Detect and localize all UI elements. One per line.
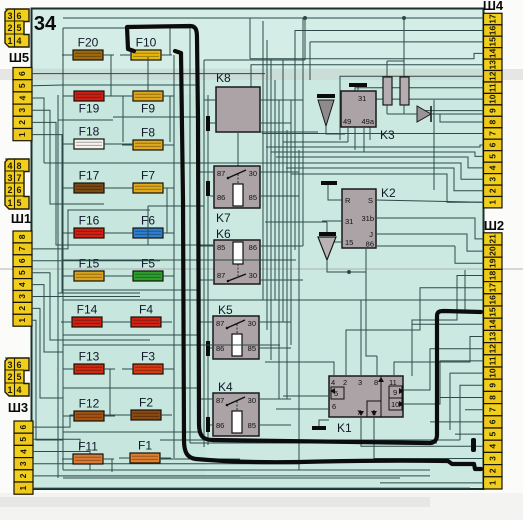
wire F16 to F6	[104, 232, 133, 234]
wire F5 right terminal	[163, 275, 174, 277]
fuse F15	[74, 257, 104, 282]
wire F20 right terminal	[103, 54, 114, 56]
wire K1 pin 5 in	[283, 395, 329, 397]
wire centre bus	[302, 18, 304, 246]
ground	[312, 426, 326, 430]
svg-text:Ш1: Ш1	[11, 211, 31, 226]
wire Ш5 pin 4	[32, 98, 44, 163]
wire VD3 cathode bar	[430, 106, 432, 122]
svg-text:1: 1	[7, 385, 12, 395]
svg-text:10: 10	[488, 94, 498, 104]
svg-text:7: 7	[16, 173, 21, 183]
fuse F20	[73, 36, 103, 61]
svg-text:Ш5: Ш5	[9, 50, 29, 65]
wire from Ш3 pin 6	[33, 415, 112, 427]
ground	[321, 181, 337, 185]
wire F13 left terminal	[63, 368, 74, 370]
svg-text:9: 9	[488, 383, 498, 388]
svg-text:10: 10	[391, 400, 399, 409]
svg-text:4: 4	[331, 378, 335, 387]
wire K1 pin 8 up	[376, 356, 378, 376]
wire F14 right terminal	[102, 321, 113, 323]
wire K1 pin 9 to Ш2 pin 12	[403, 349, 484, 390]
wire K6 left 85	[199, 245, 214, 247]
wire centre bus	[298, 150, 300, 470]
svg-text:F2: F2	[139, 396, 153, 410]
wire	[294, 30, 296, 60]
wire K1 pin 7 to Ш2 pin 4	[361, 417, 484, 446]
svg-text:3: 3	[488, 177, 498, 182]
wire F10 column drop	[147, 57, 149, 91]
wire F10 left terminal	[120, 54, 131, 56]
ground	[206, 417, 210, 432]
wire to Ш4 pin 7	[262, 133, 484, 135]
fuse F5	[133, 257, 163, 282]
wire K2 S to Ш4 pin 1	[376, 200, 484, 202]
svg-text:1: 1	[18, 485, 28, 490]
fuse F10	[131, 36, 161, 61]
wire R1 bottom	[386, 105, 388, 114]
svg-text:6: 6	[16, 185, 21, 195]
wire VD2 in	[265, 221, 327, 223]
svg-text:F17: F17	[79, 169, 100, 183]
wire K5 right 85	[259, 347, 291, 349]
svg-text:8: 8	[488, 119, 498, 124]
svg-text:1: 1	[17, 132, 27, 137]
svg-text:30: 30	[249, 271, 257, 280]
svg-text:4: 4	[17, 95, 27, 100]
svg-text:85: 85	[249, 193, 257, 202]
wire F11 left terminal	[62, 458, 73, 460]
svg-text:86: 86	[366, 240, 374, 249]
wire K6 left 87	[199, 279, 214, 281]
wire VD2 down	[327, 260, 366, 272]
svg-text:49: 49	[343, 117, 351, 126]
svg-text:7: 7	[488, 407, 498, 412]
wire F20 F10 box top	[63, 27, 190, 29]
wire from Ш1 pin 2	[32, 308, 63, 398]
svg-text:12: 12	[488, 71, 498, 81]
wire K8 right 2	[260, 122, 291, 124]
wire K5 right 30	[259, 321, 291, 323]
fuse F2	[131, 396, 161, 421]
wire F4 left terminal	[120, 321, 131, 323]
svg-text:18: 18	[488, 271, 498, 281]
svg-text:F4: F4	[139, 303, 153, 317]
junction node	[402, 16, 406, 20]
wire centre bus	[266, 40, 268, 330]
wire K2 R ground	[328, 185, 342, 200]
svg-text:5: 5	[488, 154, 498, 159]
diode VD2	[318, 232, 336, 260]
svg-text:K1: K1	[337, 421, 352, 435]
svg-text:2: 2	[7, 185, 12, 195]
svg-text:F20: F20	[78, 36, 99, 50]
wire F17 to F7	[104, 187, 133, 189]
wire from Ш1 pin 1	[32, 320, 63, 440]
wire from Ш3 pin 3	[33, 463, 300, 465]
wire bundle to Ш4 pin 3	[281, 163, 484, 179]
svg-text:49a: 49a	[361, 117, 374, 126]
svg-text:1: 1	[17, 318, 27, 323]
svg-text:K5: K5	[218, 303, 233, 317]
wire vertical jog	[147, 206, 149, 245]
wire F9 left terminal	[122, 95, 133, 97]
wire centre bus	[262, 21, 264, 300]
svg-text:4: 4	[7, 161, 12, 171]
fuse F4	[131, 303, 161, 328]
svg-text:11: 11	[488, 83, 498, 92]
ground	[206, 116, 210, 131]
wire K8 left	[204, 99, 216, 101]
wire F14 left terminal	[61, 321, 72, 323]
wire K1 pin 3 up	[360, 300, 362, 376]
wire from Ш1 pin 6	[32, 260, 160, 262]
wire K2 pin 31	[322, 220, 342, 222]
wire K1 pin 4	[265, 362, 334, 376]
wire fuse row divider	[63, 475, 240, 477]
wire fuse row divider	[63, 289, 199, 291]
wire Ш5 pin 5 run	[32, 84, 63, 87]
wire Ш2 pin 6	[430, 421, 484, 423]
connector pin strip Ш4 pins	[484, 13, 503, 208]
svg-text:2: 2	[7, 372, 12, 382]
relay K8	[216, 71, 260, 132]
wire Ш2 pin 1	[380, 482, 484, 484]
wire F20 left terminal	[62, 54, 73, 56]
wire fuse column frame left	[62, 28, 64, 470]
wire F6 left terminal	[122, 232, 133, 234]
svg-text:S: S	[368, 196, 373, 205]
wire fuse row divider	[63, 84, 199, 86]
svg-text:1: 1	[7, 36, 12, 46]
wire top bus to Ш4 pin 17	[63, 17, 484, 19]
svg-text:30: 30	[249, 169, 257, 178]
wire long bottom run	[160, 439, 460, 441]
connector pin strip Ш3 pins	[14, 421, 33, 494]
ground	[349, 83, 367, 87]
wire F9 right down	[169, 96, 171, 142]
wire F9 right terminal	[163, 95, 174, 97]
wire F16 left terminal	[63, 232, 74, 234]
wire K3 49a run	[283, 151, 364, 153]
wire Ш2 pin 8	[440, 397, 484, 399]
marker tick near Ш2 pin 4	[471, 438, 476, 452]
connector Ш5 body	[5, 9, 29, 47]
svg-text:10: 10	[488, 368, 498, 378]
svg-text:F18: F18	[79, 125, 100, 139]
wire traced by marker B	[173, 55, 175, 458]
svg-text:17: 17	[488, 283, 498, 293]
svg-text:6: 6	[17, 71, 27, 76]
wire F3 right terminal	[163, 368, 174, 370]
svg-text:F19: F19	[79, 102, 100, 116]
wire F7 right down	[166, 188, 168, 233]
wire to Ш4 pin 11	[355, 88, 484, 150]
wire long bottom run 2	[63, 469, 430, 471]
wire F19 left terminal	[63, 95, 74, 97]
wire Ш2 pin 18	[412, 276, 484, 377]
ground	[206, 341, 210, 356]
wire Ш5 pin 2	[32, 122, 63, 245]
wire K2 pin 15	[322, 241, 342, 243]
svg-text:87: 87	[216, 319, 224, 328]
svg-text:6: 6	[488, 419, 498, 424]
wire under marker A	[190, 442, 437, 444]
wire K2 86 side run	[376, 245, 455, 247]
wire K7 right 30	[260, 171, 299, 173]
svg-text:87: 87	[217, 271, 225, 280]
svg-text:F7: F7	[141, 169, 155, 183]
wire R2 bottom	[403, 105, 405, 114]
wire fuse row divider	[58, 119, 113, 121]
wire VD3 anode lead	[409, 113, 417, 115]
svg-text:17: 17	[488, 14, 498, 24]
wire F5 left terminal	[122, 275, 133, 277]
svg-text:19: 19	[488, 258, 498, 268]
wire fuse frame outer	[57, 95, 59, 478]
wire K1 pin 2 to Ш2 pin 17	[346, 288, 484, 376]
wire centre bus	[286, 130, 288, 399]
wire K8 ground lead	[210, 122, 216, 124]
wire K3 pin 49	[347, 127, 349, 142]
fuse F1	[130, 439, 160, 464]
svg-text:4: 4	[16, 385, 21, 395]
relay K5	[213, 303, 259, 359]
svg-text:1: 1	[7, 198, 12, 208]
wire Ш2 pin 14	[412, 323, 484, 325]
svg-text:5: 5	[17, 83, 27, 88]
svg-text:2: 2	[488, 468, 498, 473]
svg-text:6: 6	[332, 402, 336, 411]
svg-text:1: 1	[488, 480, 498, 485]
wire F12 left terminal	[63, 415, 74, 417]
junction node	[347, 270, 351, 274]
connector Ш1 body	[5, 159, 29, 209]
wire bundle to Ш4 pin 2	[286, 168, 484, 191]
wire K6 right 30	[260, 279, 303, 281]
wire to Ш4 pin 15	[310, 41, 484, 43]
svg-text:3: 3	[18, 461, 28, 466]
svg-text:K2: K2	[381, 186, 396, 200]
wire K4 right 30	[259, 398, 291, 400]
wire resistor top join	[387, 60, 404, 62]
relay K6	[214, 227, 260, 284]
svg-text:K7: K7	[216, 211, 231, 225]
wire K3 ground stub	[357, 87, 359, 91]
marker annotation path A (F10 left terminal loop to Ш2 pin 15)	[127, 26, 481, 443]
wire K1 ground lead	[319, 420, 329, 426]
wire K7 right 85	[260, 195, 299, 197]
wire long mid run to Ш2 pin 16	[63, 299, 484, 301]
wire long bottom run 3	[63, 477, 400, 479]
wire centre bus	[270, 59, 272, 360]
svg-text:21: 21	[488, 234, 498, 244]
svg-text:7: 7	[488, 131, 498, 136]
wire centre bus	[294, 30, 296, 250]
svg-text:87: 87	[217, 169, 225, 178]
wire F6 right terminal	[163, 232, 174, 234]
wire to Ш4 pin 12	[340, 76, 484, 140]
svg-text:85: 85	[217, 243, 225, 252]
svg-text:5: 5	[16, 372, 21, 382]
svg-text:4: 4	[18, 449, 28, 454]
svg-text:85: 85	[248, 421, 256, 430]
resistor R2	[400, 77, 409, 105]
svg-text:2: 2	[7, 23, 12, 33]
svg-text:Ш3: Ш3	[8, 400, 28, 415]
svg-text:12: 12	[488, 344, 498, 354]
wire F7 left terminal	[122, 187, 133, 189]
svg-text:15: 15	[488, 37, 498, 47]
wire F17 right terminal	[104, 187, 115, 189]
svg-text:86: 86	[249, 243, 257, 252]
fuse F17	[74, 169, 104, 194]
wire K5 left 87	[199, 321, 213, 323]
svg-text:9: 9	[488, 108, 498, 113]
wire to Ш4 pin 13	[251, 65, 484, 90]
svg-text:31: 31	[358, 94, 366, 103]
svg-text:13: 13	[488, 60, 498, 70]
wire under K3	[260, 131, 318, 133]
wire K4 left 87	[199, 398, 213, 400]
wire VD1 down	[326, 126, 345, 134]
wire K7 ground lead	[210, 195, 214, 197]
wire K8 right 1	[260, 99, 303, 101]
connector Ш3 body	[5, 358, 29, 396]
wire from Ш1 pin 5	[32, 273, 63, 340]
wire Ш2 pin 9	[460, 385, 484, 440]
svg-text:34: 34	[34, 13, 57, 35]
svg-text:8: 8	[374, 378, 378, 387]
svg-text:20: 20	[488, 246, 498, 256]
svg-text:1: 1	[488, 200, 498, 205]
wire F16 right terminal	[104, 232, 115, 234]
wire fuse row divider	[63, 431, 199, 433]
wire from Ш1 pin 7	[32, 210, 150, 249]
wire K1 pin 1 to Ш2 pin 3	[374, 417, 484, 459]
svg-text:15: 15	[488, 307, 498, 317]
svg-text:13: 13	[488, 332, 498, 342]
wire	[249, 18, 251, 59]
wire Ш2 pin 15	[465, 270, 484, 312]
svg-text:F15: F15	[79, 257, 100, 271]
svg-text:31b: 31b	[361, 214, 374, 223]
svg-text:3: 3	[7, 173, 12, 183]
wire F2 left terminal	[120, 414, 131, 416]
wire K8 to K7 link	[237, 132, 239, 166]
wire F3 left terminal	[122, 368, 133, 370]
wire F1 right terminal	[160, 457, 171, 459]
wire K3 49 run	[283, 141, 348, 143]
wire fuse row divider	[58, 203, 104, 205]
wire K1 pin 11 to Ш2 pin 13	[394, 337, 484, 377]
wire F15 right terminal	[104, 275, 115, 277]
svg-text:K8: K8	[216, 71, 231, 85]
wire F1 right	[160, 458, 240, 460]
svg-text:3: 3	[7, 11, 12, 21]
wire centre bus	[290, 100, 292, 345]
relay K7	[214, 166, 260, 225]
svg-text:F14: F14	[77, 303, 98, 317]
fuse F18	[74, 125, 104, 150]
svg-text:86: 86	[217, 193, 225, 202]
wire F11 right drop	[103, 459, 112, 472]
wire drop to resistor R2	[403, 18, 405, 77]
svg-text:5: 5	[488, 431, 498, 436]
wire to Ш2 pin 19	[455, 246, 484, 263]
svg-text:2: 2	[18, 473, 28, 478]
wire centre bus	[278, 100, 280, 399]
wire K7 left 87	[199, 171, 214, 173]
svg-text:3: 3	[17, 108, 27, 113]
diode VD3	[417, 106, 431, 122]
svg-text:6: 6	[17, 258, 27, 263]
svg-text:4: 4	[17, 282, 27, 287]
wire F18 to F8	[104, 143, 133, 145]
ground	[206, 181, 210, 196]
svg-text:F9: F9	[141, 102, 155, 116]
marker annotation path B (F10 right terminal down to Ш2 pin 2)	[175, 51, 481, 469]
svg-text:2: 2	[17, 120, 27, 125]
wire F18 right terminal	[104, 143, 115, 145]
wire fuse row divider long	[44, 162, 303, 164]
wire F8 right terminal	[163, 144, 174, 146]
wire	[309, 42, 311, 80]
wire bundle to Ш4 pin 6	[266, 145, 484, 147]
svg-text:9: 9	[393, 388, 397, 397]
wire F2 right terminal	[161, 414, 172, 416]
svg-text:K6: K6	[216, 227, 231, 241]
wire F4 right terminal	[161, 321, 172, 323]
wire fuse row divider	[63, 387, 199, 389]
wire K3 pin 49a	[363, 127, 365, 152]
wire fuse row divider	[63, 339, 150, 341]
wire bundle to Ш4 pin 4	[276, 157, 484, 168]
svg-text:K4: K4	[218, 380, 233, 394]
wire F19 right terminal	[104, 95, 115, 97]
wire Ш2 pin 10	[450, 373, 484, 430]
svg-text:2: 2	[343, 378, 347, 387]
svg-text:F3: F3	[141, 350, 155, 364]
fuse F19	[74, 91, 104, 116]
wire F15 to F5	[104, 275, 133, 277]
wire F20 to F9	[103, 55, 133, 96]
svg-text:F5: F5	[141, 257, 155, 271]
svg-text:6: 6	[18, 424, 28, 429]
fuse F9	[133, 91, 163, 116]
svg-text:4: 4	[488, 165, 498, 170]
relay K1	[329, 376, 404, 435]
wire junction drop	[304, 18, 306, 60]
fuse F11	[73, 440, 103, 465]
svg-text:5: 5	[16, 198, 21, 208]
svg-text:5: 5	[18, 437, 28, 442]
wire fuse row divider	[113, 116, 199, 118]
wire F1 left terminal	[119, 457, 130, 459]
wire VD2 top lead	[326, 222, 328, 232]
svg-text:4: 4	[16, 36, 21, 46]
svg-text:F13: F13	[79, 350, 100, 364]
fuse F12	[74, 397, 104, 422]
svg-text:K3: K3	[380, 128, 395, 142]
wire fuse row divider	[58, 292, 140, 294]
svg-text:16: 16	[488, 295, 498, 305]
svg-text:14: 14	[488, 319, 498, 329]
wire VD3 out	[431, 113, 484, 115]
diode VD1	[317, 94, 335, 126]
wire from Ш3 pin 2	[33, 475, 430, 477]
